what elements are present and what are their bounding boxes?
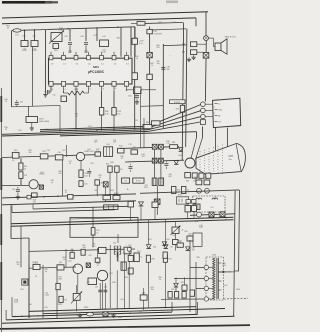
resistor R38 [132, 73, 137, 80]
node IF c [117, 27, 119, 29]
wire cf gnd [31, 123, 33, 127]
wire v124 [123, 252, 125, 262]
capacitor C25 [87, 170, 91, 172]
thermistor TH1 [194, 204, 200, 210]
resistor R31 [113, 195, 120, 199]
ground G1 [188, 58, 190, 60]
wire audio drops [65, 249, 67, 268]
capacitor C31 [129, 166, 133, 168]
capacitor C15 [19, 172, 23, 179]
wire drops toprow [130, 207, 132, 221]
wire jog v239 [235, 270, 240, 272]
wire R48 line [131, 23, 137, 25]
wire bot2 corner [5, 310, 7, 320]
wire long pair 2 [11, 220, 234, 227]
connector X7 [159, 158, 164, 163]
capacitor C11 [61, 96, 67, 102]
junction [134, 129, 135, 130]
wire drop p6 [120, 27, 122, 56]
junction [59, 130, 60, 131]
wire mid bus 4 [2, 131, 148, 136]
resistor R26 [108, 166, 112, 172]
resistor R36 [206, 173, 211, 178]
diode D2 [179, 148, 183, 152]
connector CN1 body [213, 98, 241, 127]
resistor R15 [40, 154, 48, 159]
resistor R50 [191, 50, 197, 55]
node IF b [96, 27, 98, 29]
scan artifact top-left bar [2, 1, 52, 4]
relay RL1 [177, 197, 189, 204]
node c2 [205, 188, 210, 193]
resistor R41 [196, 180, 202, 185]
wire pair-to-row drop [20, 226, 22, 267]
ground G3 [136, 100, 138, 102]
wire input line [12, 30, 49, 31]
resistor R40a [128, 201, 134, 207]
T102 tap stub 1 [209, 266, 214, 268]
wire drop C01 [24, 30, 26, 40]
wire bot pair b [43, 309, 225, 314]
wire row line [2, 155, 95, 158]
T102 tap stub 2 [209, 277, 214, 279]
connector pin wire 1 [205, 103, 213, 105]
capacitor C02 [31, 41, 38, 47]
wire drop r14 [20, 158, 22, 163]
node c3 [197, 212, 202, 217]
capacitor C26 [79, 181, 83, 187]
connector pin circle 3 [201, 114, 206, 119]
resistor R61v [56, 283, 60, 289]
wire q02 line [2, 184, 29, 186]
capacitor C53b [88, 278, 97, 285]
resistor R33 [185, 172, 191, 177]
wire audio lines [2, 194, 136, 198]
capacitor C62 [98, 289, 102, 291]
wire pin3 down [75, 91, 77, 129]
CRT grid dots [199, 150, 202, 153]
wire c07 line [12, 105, 61, 106]
resistor R64 [190, 290, 195, 296]
ground G5 [31, 126, 33, 128]
resistor R57 [163, 255, 167, 262]
capacitor C39 [132, 38, 137, 44]
wire y161 line [125, 160, 184, 162]
wire r09 out [84, 92, 89, 94]
pin 8 bottom box [124, 81, 128, 86]
wire IF left edge [45, 30, 47, 93]
wire crt anode drops [215, 128, 217, 151]
wire drop x182.8 [182, 23, 183, 161]
wire v29 [28, 265, 30, 318]
wire q52 down [102, 281, 104, 310]
wire right bus [234, 191, 235, 316]
resistor R59 [177, 243, 183, 247]
scan artifact left edge dark 2 [0, 158, 2, 190]
wire short pair 2 [12, 210, 115, 213]
connector X8 [209, 212, 214, 217]
wire short pair 1 [33, 206, 128, 209]
capacitor C10 [46, 90, 48, 94]
wire speaker vertical [204, 41, 207, 102]
wire feed 1 [140, 90, 142, 148]
resistor R53 [81, 249, 85, 255]
wire v148 [147, 220, 149, 245]
wire bot1 corners [11, 297, 13, 316]
wire mid bus 2 [40, 128, 148, 131]
wire pin6 down [113, 91, 115, 108]
trimmer VC01 [51, 33, 62, 42]
wire crt feed a [191, 138, 197, 159]
resistor R58 [128, 255, 133, 261]
transformer T102 primary [213, 258, 215, 299]
scan artifact left edge dark 3 [0, 214, 2, 245]
wire tap1 left [190, 266, 204, 268]
coil L42a [196, 198, 202, 199]
wire rung y45 [163, 44, 186, 47]
wire drop p7 [130, 27, 132, 57]
wire v143 [143, 288, 145, 295]
resistor R34 [192, 173, 197, 178]
wire tap3 left [196, 287, 204, 289]
connector tick 4 [215, 121, 218, 123]
connector X12 [103, 312, 108, 316]
resistor R28 [170, 145, 178, 149]
diode D3 [174, 161, 178, 165]
junction bottom [21, 316, 22, 317]
capacitor C44 [192, 200, 197, 204]
degauss dashed box [193, 196, 225, 212]
wire drop x60 [59, 105, 61, 130]
pin 3 top box [74, 55, 78, 59]
capacitor C16 [55, 155, 63, 160]
pin 12 bottom box [74, 81, 78, 86]
resistor R47 [182, 187, 186, 194]
wire r51 vert [92, 207, 94, 228]
block lower [193, 233, 202, 246]
wire mid verticals [65, 145, 67, 157]
connector pin tick 2 [215, 109, 218, 111]
scan artifact left edge dark 4 [0, 262, 2, 300]
wire mid bus 5 [60, 132, 197, 136]
pot VR44 [172, 227, 179, 234]
wire IF top edge [48, 27, 135, 30]
wire drop C02 [34, 30, 36, 41]
ground G6 [17, 195, 19, 197]
capacitor C19 [16, 189, 20, 191]
capacitor C01 [21, 41, 28, 47]
wire frame top2 [70, 217, 138, 219]
wire mid bus 1 [40, 126, 148, 129]
pin 13 bottom box [61, 81, 65, 86]
wire IF right edge [134, 27, 136, 57]
inductor L01 [13, 29, 21, 32]
wire bus B drop [195, 18, 197, 26]
wire cf drop [28, 106, 30, 116]
block label box [170, 100, 186, 104]
capacitor C56b [124, 247, 131, 254]
wire drop x32 [32, 47, 34, 107]
ground G4 [193, 55, 195, 57]
wire drop x163.3 [162, 44, 164, 128]
block H-OUT [133, 178, 144, 183]
wire v57 [56, 265, 58, 318]
wire mid bus 3 [2, 130, 148, 135]
wire stub left [11, 31, 13, 107]
diode D52 [163, 245, 168, 249]
node input a [24, 29, 26, 31]
capacitor C59 [163, 252, 167, 258]
capacitor C29 [135, 95, 139, 97]
ground G7 [79, 314, 81, 316]
connector X5 [159, 144, 164, 149]
wire bot pair a [29, 307, 196, 312]
connector pin tick 1 [215, 102, 218, 104]
pin 1 top box [49, 55, 53, 59]
T102 tap node 2 [204, 276, 208, 280]
connector pin tick 3 [215, 115, 218, 117]
resistor R51 [91, 228, 95, 235]
transformer T52 [121, 262, 126, 270]
wire rung x149-186 [150, 29, 187, 30]
transistor Q52 [97, 270, 107, 280]
junction bottom [109, 313, 110, 314]
resistor R39 [147, 74, 152, 79]
resistor R25 [95, 180, 100, 185]
wire v239 [238, 190, 241, 271]
transformer T51 [114, 246, 115, 255]
resistor R23 [118, 148, 125, 153]
connector X3 [103, 182, 108, 187]
pin 2 top box [62, 55, 66, 59]
crystal X01 [126, 90, 128, 92]
diode D53 [186, 247, 190, 251]
wire t51 stubs [117, 234, 119, 243]
IC U1 body [49, 58, 133, 84]
connector pin wire 3 [205, 116, 213, 118]
capacitor C60 [182, 285, 187, 290]
wire spk link [208, 37, 213, 39]
resistor R27 [115, 166, 119, 172]
connector X6 [152, 158, 157, 163]
junction [149, 129, 150, 130]
resistor R54 [95, 258, 100, 262]
resistor R63 [182, 292, 186, 299]
resistor R45 [187, 236, 193, 241]
wire mid bus 5b [202, 127, 204, 138]
wire pair left drop [10, 226, 12, 238]
junction [96, 130, 97, 131]
wire v117 [116, 252, 118, 261]
wire crt feed b [196, 138, 203, 160]
connector X11 [22, 279, 28, 285]
scan artifact left edge dark 1 [0, 96, 2, 122]
wire bus A drop right [205, 12, 207, 36]
wire v165 [164, 219, 166, 245]
wire yoke verts [154, 149, 156, 178]
transistor Q03 gun [185, 158, 195, 168]
pin 5 top box [100, 55, 104, 59]
wire bot 2 [6, 314, 197, 320]
connector X9 [220, 212, 225, 217]
coil L42b [212, 198, 218, 199]
connector pin square [200, 120, 205, 125]
transistor Q02 [29, 180, 38, 189]
transformer T102 secondary ticks [218, 262, 221, 264]
yoke coil DY2 [159, 178, 164, 185]
resistor R56 [146, 255, 150, 262]
pin 10 bottom box [99, 81, 103, 86]
wire pin2 down [63, 91, 65, 93]
resistor R14 [19, 163, 23, 170]
resistor R19b [68, 195, 74, 200]
wire y267 row [29, 267, 76, 268]
resistor R40b [152, 202, 158, 208]
wire x157 drop [156, 186, 158, 215]
wire long pair 1 [11, 217, 234, 224]
connector JX1 [147, 52, 152, 57]
wire tap4 left [161, 298, 204, 300]
wire drop c07t [96, 28, 98, 41]
capacitor C43 [186, 200, 191, 204]
resistor R55 [128, 268, 133, 274]
wire y147 line [120, 147, 179, 149]
resistor R52a [70, 252, 74, 258]
wire tap2 left [174, 277, 204, 279]
node c1 [197, 188, 202, 193]
resistor R22 [95, 152, 101, 156]
capacitor C33 [164, 163, 168, 165]
resistor R24 [143, 125, 152, 129]
resistor R37 [147, 29, 152, 33]
pot VR51 [73, 293, 80, 300]
resistor R43 [185, 206, 191, 212]
yoke coil DY1 [152, 178, 157, 185]
wire pin7 right [127, 89, 134, 91]
node frame bottom [45, 91, 47, 93]
resistor R54b [134, 253, 139, 262]
capacitor C52b [57, 265, 64, 270]
wire v176 [175, 278, 177, 284]
node audio dots [32, 196, 34, 198]
pin 11 bottom box [86, 81, 90, 86]
connector X10 [86, 263, 90, 268]
capacitor C07 [15, 102, 19, 104]
transformer T102 dashed box [206, 257, 224, 300]
capacitor C28 [112, 108, 116, 116]
connector pin wire 2 [205, 109, 213, 111]
transistor Q51 [73, 264, 83, 274]
T102 tap node 3 [204, 286, 208, 290]
wire q51 down [77, 274, 79, 293]
wire drop c06 [85, 29, 87, 41]
junction [75, 130, 76, 131]
arrow deflection [218, 271, 231, 273]
resistor C24 [79, 170, 83, 177]
diode D51 [146, 245, 151, 249]
capacitor C63 [140, 295, 147, 300]
wire bus A top [2, 12, 208, 18]
junction [113, 130, 114, 131]
resistor R35 [199, 173, 204, 178]
wire drop x149.6 [149, 27, 151, 126]
ground G2 [45, 93, 47, 95]
resistor R02 [53, 44, 59, 49]
wire y214 line [190, 214, 235, 216]
ground G8 [113, 313, 115, 315]
wire bot 3 [2, 316, 235, 323]
wire left col [10, 205, 12, 226]
resistor R60 [59, 296, 63, 302]
diode D55 [174, 283, 178, 287]
fuse F1 [27, 195, 31, 199]
coil L03 [100, 40, 109, 47]
resistor R44 [192, 206, 197, 212]
wire v190 [189, 240, 191, 312]
resistor R27b [152, 121, 161, 125]
junction bottom [129, 313, 130, 314]
capacitor C49 [191, 42, 197, 47]
T102 tap node 4 [204, 297, 208, 301]
CRT funnel [196, 143, 245, 174]
wire drop x186.2 [186, 29, 187, 147]
resistor R42 [204, 180, 210, 185]
node IF a [67, 28, 69, 30]
resistor R62 [175, 292, 179, 299]
wire drop x59 [62, 160, 64, 196]
wire pot stub [76, 285, 78, 293]
node J1 speaker feed [204, 36, 209, 41]
capacitor C06 [84, 42, 88, 44]
pin 6 top box [112, 55, 116, 59]
coil T01 can [104, 147, 113, 157]
connector X13 [155, 199, 160, 204]
scan artifact bottom edge [0, 325, 250, 329]
node d0 [127, 247, 131, 251]
T102 tap stub 3 [209, 287, 214, 289]
speaker SP01 [215, 43, 221, 51]
transistor Q01 [76, 152, 84, 160]
wire v196 [195, 262, 197, 315]
capacitor C05 [68, 42, 72, 44]
wire pin5 down [101, 91, 103, 108]
resistor R18 [32, 193, 38, 198]
junction bottom [29, 315, 30, 316]
capacitor C55b [99, 247, 107, 253]
wire v110 [109, 245, 111, 308]
resistor R48 [137, 22, 145, 26]
wire v184 [184, 277, 186, 285]
pin 14 bottom box [49, 81, 53, 86]
resistor R20 [99, 108, 103, 116]
diode D40 [139, 202, 144, 206]
node input b [34, 29, 36, 31]
resistor R32 [131, 150, 138, 154]
wire v129 [128, 251, 130, 255]
connector pin circle 1 [201, 102, 206, 107]
pot bottom [86, 312, 93, 316]
wire c49 link [197, 43, 206, 45]
wire y190 line [140, 190, 239, 193]
connector P2 [203, 53, 209, 59]
filter CF01 [26, 117, 38, 123]
diode D54 [162, 242, 166, 246]
junction bottom [14, 316, 15, 317]
wire v43 [42, 265, 44, 318]
wire v100 [99, 283, 101, 309]
transformer T02 [104, 205, 118, 210]
resistor R29 [180, 105, 184, 112]
